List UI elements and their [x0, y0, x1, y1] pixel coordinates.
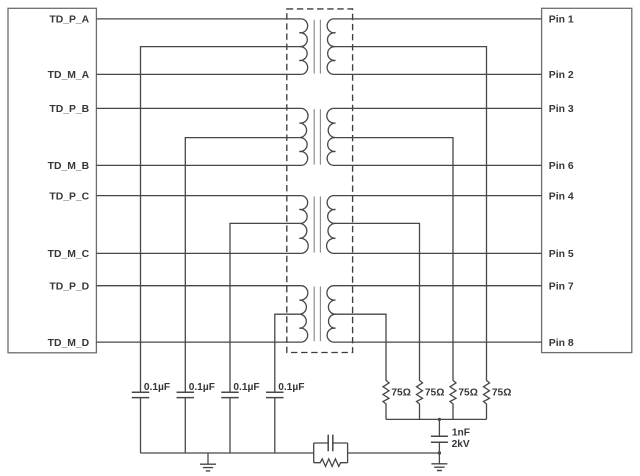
wire capacitor common rail	[141, 452, 314, 454]
capacitor C5 1nF 2kV	[431, 436, 448, 442]
wire RC network to chassis node	[348, 452, 440, 454]
transformer T1 core	[314, 20, 320, 74]
svg-text:Pin 6: Pin 6	[549, 161, 574, 172]
capacitor C2 0.1uF	[177, 392, 195, 397]
resistor R2 75ohm	[417, 380, 423, 419]
resistor R1 75ohm	[383, 380, 389, 419]
wire rail to C5	[438, 419, 440, 435]
transformer T3 core	[314, 196, 320, 252]
wire T3 secondary center tap to R3	[336, 223, 420, 380]
wire C2 bottom	[184, 398, 186, 453]
wire TD_M_A	[96, 73, 302, 75]
wire Pin 4	[333, 195, 542, 197]
wire T4 primary center tap to C4	[275, 314, 300, 392]
svg-text:TD_P_D: TD_P_D	[49, 281, 89, 292]
svg-text:1nF: 1nF	[452, 428, 470, 439]
svg-text:TD_P_B: TD_P_B	[49, 104, 89, 115]
transformer T4 core	[314, 287, 320, 342]
chassis ground symbol	[431, 464, 447, 471]
wire Pin 8	[333, 341, 542, 343]
capacitor C1 0.1uF	[132, 392, 150, 397]
svg-text:TD_M_A: TD_M_A	[48, 70, 90, 81]
wire C4 bottom	[274, 398, 276, 453]
wire TD_P_C	[96, 195, 302, 197]
svg-text:0.1µF: 0.1µF	[144, 382, 170, 393]
svg-text:75Ω: 75Ω	[425, 388, 445, 399]
svg-text:75Ω: 75Ω	[492, 388, 512, 399]
wire Pin 7	[333, 285, 542, 287]
svg-text:0.1µF: 0.1µF	[233, 382, 259, 393]
resistor R3 75ohm	[450, 380, 456, 419]
svg-text:Pin 4: Pin 4	[549, 191, 574, 202]
wire resistor common rail	[386, 418, 487, 420]
svg-text:Pin 7: Pin 7	[549, 281, 574, 292]
transformer T1 secondary winding	[327, 19, 335, 75]
wire TD_M_C	[96, 252, 302, 254]
svg-text:0.1µF: 0.1µF	[278, 382, 304, 393]
capacitor C3 0.1uF	[221, 392, 239, 397]
node resistor rail junction	[438, 418, 441, 421]
svg-text:Pin 5: Pin 5	[549, 249, 574, 260]
svg-text:2kV: 2kV	[452, 439, 470, 450]
RC snubber network outline	[314, 443, 348, 463]
transformer T2 secondary winding	[327, 108, 336, 165]
svg-text:TD_M_B: TD_M_B	[48, 161, 90, 172]
wire T2 primary center tap to C2	[185, 138, 299, 392]
wire C5 bottom to chassis ground	[438, 442, 440, 464]
svg-text:TD_M_C: TD_M_C	[48, 249, 90, 260]
capacitor C4 0.1uF	[266, 392, 284, 397]
transformer T4 secondary winding	[327, 286, 336, 342]
wire T3 primary center tap to C3	[230, 223, 299, 392]
transformer T3 primary winding	[299, 196, 308, 254]
wire T2 secondary center tap to R2	[336, 138, 454, 381]
transformer T2 primary winding	[299, 108, 308, 165]
wire T4 secondary center tap to R4	[336, 314, 387, 380]
wire ground stem	[207, 453, 209, 464]
transformer T1 primary winding	[299, 19, 307, 75]
svg-text:TD_P_C: TD_P_C	[49, 191, 89, 202]
svg-text:0.1µF: 0.1µF	[189, 382, 215, 393]
wire Pin 2	[333, 73, 542, 75]
svg-text:Pin 2: Pin 2	[549, 70, 574, 81]
svg-text:75Ω: 75Ω	[458, 388, 478, 399]
svg-text:TD_P_A: TD_P_A	[49, 15, 89, 26]
transformer T3 secondary winding	[327, 196, 336, 254]
svg-text:Pin 3: Pin 3	[549, 104, 574, 115]
capacitor C6 (RC network top branch)	[314, 442, 348, 444]
wire Pin 5	[333, 252, 542, 254]
svg-text:Pin 1: Pin 1	[549, 15, 574, 26]
wire C1 bottom	[140, 398, 142, 453]
wire TD_M_D	[96, 341, 302, 343]
RJ45 connector box	[542, 8, 632, 352]
svg-text:TD_M_D: TD_M_D	[48, 338, 90, 349]
svg-text:Pin 8: Pin 8	[549, 338, 574, 349]
wire T1 primary center tap to C1	[141, 47, 300, 392]
wire TD_P_A	[96, 18, 302, 20]
resistor R4 75ohm	[484, 380, 490, 419]
transformer T2 core	[314, 109, 320, 164]
resistor R5 (RC network bottom branch)	[314, 459, 348, 467]
wire Pin 6	[333, 164, 542, 166]
wire Pin 1	[333, 18, 542, 20]
svg-text:75Ω: 75Ω	[391, 388, 411, 399]
wire TD_P_D	[96, 285, 302, 287]
wire TD_M_B	[96, 164, 302, 166]
PHY-side IC box	[8, 8, 96, 353]
wire C3 bottom	[229, 398, 231, 453]
wire T1 secondary center tap to R1	[336, 47, 487, 381]
transformer T4 primary winding	[299, 286, 308, 342]
ground symbol (signal ground)	[200, 464, 216, 471]
wire TD_P_B	[96, 107, 302, 109]
transformer module dashed outline	[287, 9, 353, 353]
node chassis junction	[438, 451, 441, 454]
wire Pin 3	[333, 107, 542, 109]
